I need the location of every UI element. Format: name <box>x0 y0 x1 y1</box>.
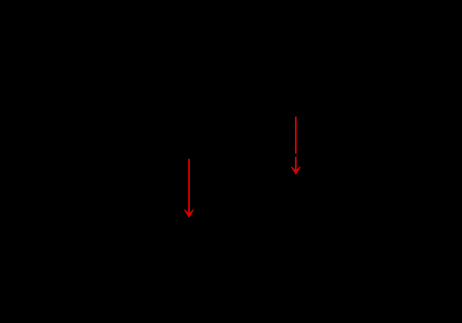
ground <box>220 250 240 272</box>
wire bottom <box>70 249 400 251</box>
current arrow I2 <box>292 117 301 174</box>
wire middle (crosses current arrow I2) <box>230 154 340 157</box>
wire left-bottom <box>69 173 71 250</box>
voltage source V1 <box>52 137 88 173</box>
node A junction <box>227 152 233 158</box>
resistor R1 <box>224 90 236 250</box>
current arrow I1 <box>185 159 194 217</box>
wire left-top <box>69 90 71 137</box>
wire middle-right riser <box>339 90 341 155</box>
wire top <box>70 89 400 91</box>
node B junction <box>337 87 343 93</box>
resistor R2 <box>394 90 406 250</box>
